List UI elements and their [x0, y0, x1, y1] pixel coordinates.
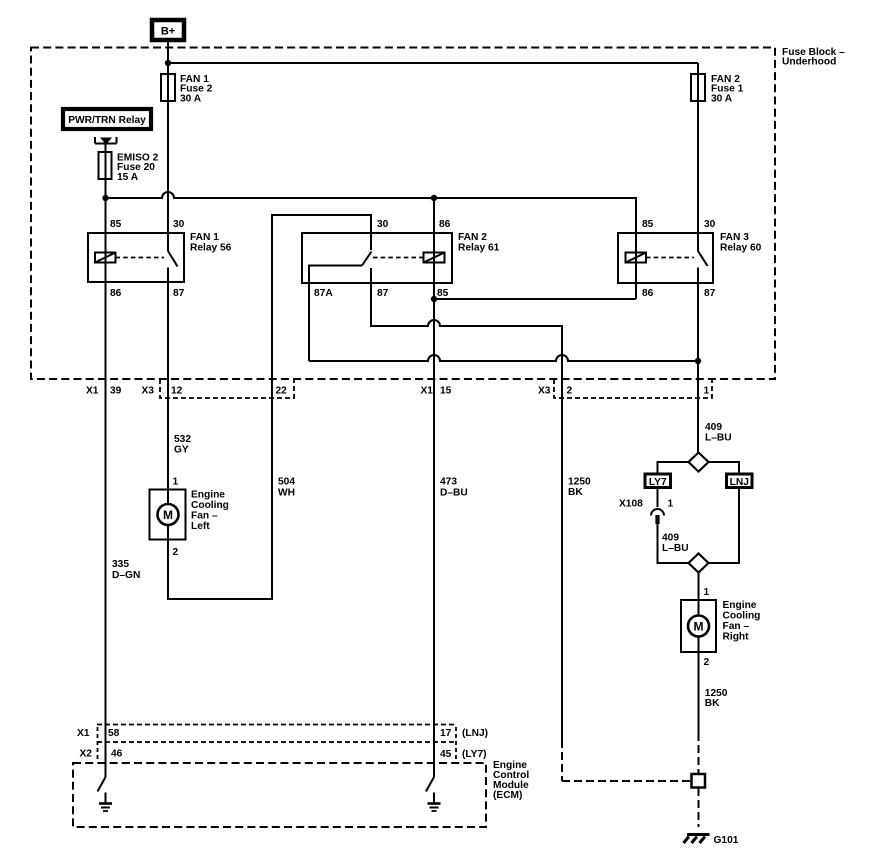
- svg-text:532: 532: [174, 434, 191, 445]
- svg-text:BK: BK: [705, 698, 720, 709]
- svg-text:B+: B+: [161, 26, 175, 38]
- svg-text:409: 409: [705, 422, 722, 433]
- svg-text:504: 504: [278, 477, 295, 488]
- svg-text:30 A: 30 A: [180, 93, 202, 104]
- svg-text:85: 85: [110, 219, 122, 230]
- svg-text:L–BU: L–BU: [705, 433, 732, 444]
- svg-text:85: 85: [642, 219, 654, 230]
- svg-text:17: 17: [440, 728, 452, 739]
- svg-text:(LNJ): (LNJ): [462, 728, 488, 739]
- svg-text:Cooling: Cooling: [723, 611, 761, 622]
- svg-text:87: 87: [173, 288, 185, 299]
- svg-text:Engine: Engine: [191, 490, 225, 501]
- svg-text:LNJ: LNJ: [730, 477, 749, 488]
- svg-text:(LY7): (LY7): [462, 749, 487, 760]
- svg-text:1: 1: [668, 499, 674, 510]
- svg-text:Fan –: Fan –: [723, 621, 750, 632]
- svg-text:409: 409: [662, 533, 679, 544]
- svg-text:L–BU: L–BU: [662, 543, 689, 554]
- svg-text:1: 1: [173, 477, 179, 488]
- svg-text:87: 87: [377, 288, 389, 299]
- svg-text:1: 1: [704, 386, 710, 397]
- svg-text:WH: WH: [278, 488, 295, 499]
- svg-text:2: 2: [173, 547, 179, 558]
- svg-text:30: 30: [173, 219, 185, 230]
- svg-text:GY: GY: [174, 445, 189, 456]
- svg-text:X3: X3: [538, 386, 551, 397]
- svg-text:Right: Right: [723, 632, 750, 643]
- svg-text:2: 2: [567, 386, 573, 397]
- svg-text:87: 87: [704, 288, 716, 299]
- svg-text:M: M: [163, 508, 173, 522]
- svg-text:39: 39: [110, 386, 122, 397]
- svg-text:2: 2: [704, 657, 710, 668]
- svg-text:Relay 60: Relay 60: [720, 243, 762, 254]
- svg-text:FAN 3: FAN 3: [720, 232, 749, 243]
- svg-text:335: 335: [112, 559, 129, 570]
- svg-text:58: 58: [108, 728, 120, 739]
- svg-text:12: 12: [171, 386, 183, 397]
- svg-text:86: 86: [439, 219, 451, 230]
- svg-text:86: 86: [110, 288, 122, 299]
- svg-text:Underhood: Underhood: [782, 57, 836, 68]
- svg-text:D–BU: D–BU: [440, 488, 468, 499]
- svg-text:Engine: Engine: [723, 600, 757, 611]
- svg-text:Cooling: Cooling: [191, 500, 229, 511]
- svg-text:1250: 1250: [568, 477, 591, 488]
- svg-text:15 A: 15 A: [117, 172, 139, 183]
- svg-text:Left: Left: [191, 521, 210, 532]
- svg-text:473: 473: [440, 477, 457, 488]
- svg-text:M: M: [694, 619, 704, 633]
- svg-text:G101: G101: [714, 835, 739, 846]
- svg-text:FAN 1: FAN 1: [190, 232, 219, 243]
- svg-text:LY7: LY7: [649, 477, 667, 488]
- svg-text:X108: X108: [619, 499, 643, 510]
- svg-text:Relay 61: Relay 61: [458, 243, 500, 254]
- svg-text:1: 1: [704, 587, 710, 598]
- svg-text:X1: X1: [421, 386, 434, 397]
- svg-text:45: 45: [440, 749, 452, 760]
- svg-text:30 A: 30 A: [711, 93, 733, 104]
- svg-text:X1: X1: [86, 386, 99, 397]
- svg-text:BK: BK: [568, 487, 583, 498]
- svg-text:15: 15: [440, 386, 452, 397]
- svg-text:46: 46: [111, 749, 123, 760]
- svg-text:22: 22: [276, 386, 288, 397]
- svg-text:86: 86: [642, 288, 654, 299]
- svg-text:FAN 2: FAN 2: [458, 232, 487, 243]
- svg-text:X1: X1: [77, 728, 90, 739]
- svg-text:87A: 87A: [314, 288, 333, 299]
- svg-text:D–GN: D–GN: [112, 570, 140, 581]
- svg-text:Relay 56: Relay 56: [190, 243, 232, 254]
- svg-text:PWR/TRN Relay: PWR/TRN Relay: [68, 115, 146, 126]
- svg-text:30: 30: [377, 219, 389, 230]
- svg-text:X3: X3: [142, 386, 155, 397]
- svg-text:30: 30: [704, 219, 716, 230]
- svg-text:Fan –: Fan –: [191, 511, 218, 522]
- svg-text:X2: X2: [80, 749, 93, 760]
- svg-text:85: 85: [437, 288, 449, 299]
- svg-text:(ECM): (ECM): [493, 790, 522, 801]
